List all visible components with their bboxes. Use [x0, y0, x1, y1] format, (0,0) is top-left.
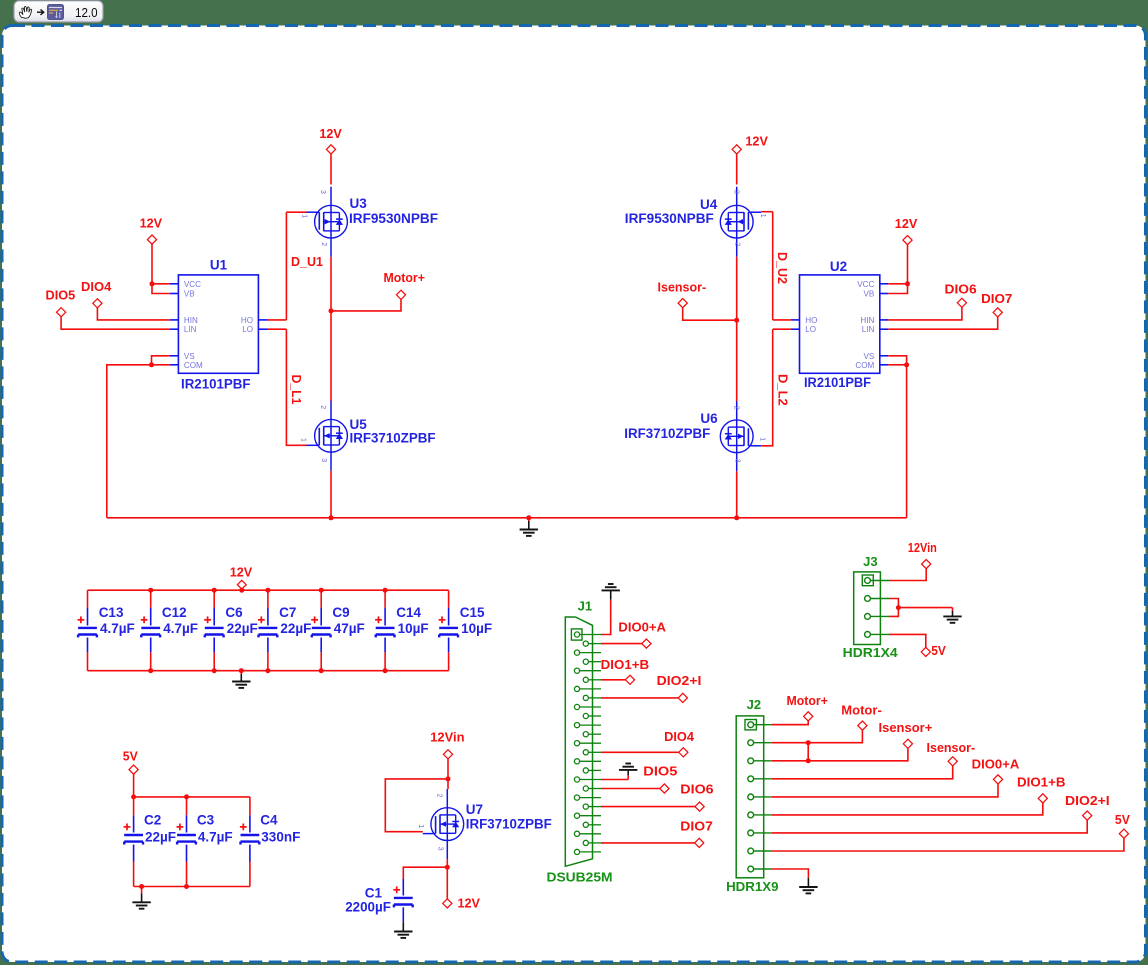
svg-text:COM: COM	[184, 361, 203, 370]
wire J3 pin3	[889, 608, 898, 617]
svg-text:1: 1	[759, 437, 766, 441]
svg-text:4.7µF: 4.7µF	[198, 830, 233, 845]
svg-text:C9: C9	[332, 605, 349, 620]
svg-text:12V: 12V	[458, 896, 481, 911]
svg-text:2200µF: 2200µF	[345, 900, 391, 915]
svg-text:HDR1X4: HDR1X4	[843, 645, 899, 660]
ground symbol J3	[943, 615, 961, 617]
net D_L1 vertical to U5 gate	[286, 329, 306, 445]
ground symbol cap bank	[232, 681, 250, 683]
svg-text:VB: VB	[184, 290, 195, 299]
wire 12Vin down	[447, 759, 449, 779]
junction gnd cap bank	[239, 668, 244, 673]
svg-text:22µF: 22µF	[145, 830, 176, 845]
5V block bottom rail	[134, 886, 250, 888]
wire J3 pin2	[889, 599, 898, 608]
wire U6 source to rail	[736, 471, 738, 518]
svg-text:U2: U2	[830, 259, 847, 274]
svg-text:12Vin: 12Vin	[430, 730, 464, 745]
J1 pin1 square	[571, 629, 582, 640]
junction VS-COM	[149, 362, 154, 367]
wire DIO6 to HIN	[888, 308, 962, 320]
svg-text:DIO6: DIO6	[945, 282, 977, 297]
wire C1 to ground	[402, 907, 404, 923]
J3 pins	[865, 578, 871, 584]
svg-text:DIO4: DIO4	[81, 279, 112, 294]
svg-text:10µF: 10µF	[461, 621, 492, 636]
connector J3 HDR1X4 box	[854, 572, 881, 645]
wire VCC	[152, 283, 170, 285]
junction drain-left	[329, 308, 334, 313]
svg-text:D_U1: D_U1	[291, 254, 323, 269]
junction rail ground	[526, 515, 531, 520]
wire U7 source down	[446, 859, 448, 867]
J3 pin1 square	[862, 575, 873, 586]
svg-text:2: 2	[319, 405, 326, 409]
svg-text:2: 2	[320, 242, 327, 246]
junction VCC right	[905, 281, 910, 286]
svg-text:J2: J2	[747, 697, 761, 712]
wire U4 drain to U6 drain	[736, 257, 738, 402]
svg-text:C3: C3	[197, 813, 215, 828]
capacitor C4 330nF	[249, 797, 251, 815]
transistor U4 IRF9530NPBF	[720, 205, 753, 238]
svg-text:Motor-: Motor-	[841, 703, 882, 718]
driver U2 IR2101PBF box	[800, 275, 880, 373]
ground rail wire	[107, 517, 907, 519]
svg-text:3: 3	[436, 847, 443, 851]
wire J2 pins 2-3 joined	[807, 743, 809, 761]
hand pan icon	[19, 6, 31, 18]
svg-text:12V: 12V	[745, 134, 768, 149]
capacitor C3 4.7µF	[186, 797, 188, 815]
J2 pins	[748, 722, 754, 728]
svg-text:1: 1	[300, 438, 307, 442]
wire to C1	[403, 867, 447, 879]
svg-text:22µF: 22µF	[227, 621, 258, 636]
svg-text:22µF: 22µF	[280, 621, 311, 636]
wire VS loop	[152, 356, 170, 365]
svg-text:47µF: 47µF	[334, 621, 365, 636]
capacitor C9 47µF	[320, 590, 322, 608]
U1 pin stubs right	[258, 319, 268, 321]
connector J1 DSUB25M outline	[565, 617, 592, 866]
wire U7 to 12V flag	[446, 867, 448, 899]
svg-text:DIO1+B: DIO1+B	[1017, 775, 1066, 790]
capacitor C7 22µF	[267, 590, 269, 608]
svg-text:LIN: LIN	[184, 325, 197, 334]
U2 pin stubs right	[880, 283, 889, 285]
svg-text:3: 3	[319, 190, 326, 194]
junction U5 source rail	[329, 515, 334, 520]
ground symbol 5V block	[132, 901, 150, 903]
transistor U7 IRF3710ZPBF	[431, 808, 464, 841]
wire U2 HO to D_U2	[773, 319, 791, 321]
svg-text:3: 3	[320, 458, 327, 462]
svg-text:U3: U3	[350, 196, 368, 211]
svg-text:DIO5: DIO5	[46, 287, 76, 302]
svg-text:4.7µF: 4.7µF	[100, 621, 135, 636]
svg-text:D_L2: D_L2	[776, 374, 791, 406]
svg-text:C7: C7	[279, 605, 296, 620]
wire 12V to U1 VCC	[151, 244, 153, 283]
wire 12V to U3 drain	[330, 154, 332, 184]
svg-text:2: 2	[435, 794, 442, 798]
J1 pins	[574, 632, 579, 637]
wire 12V to U2 VCC	[907, 245, 909, 284]
svg-text:VCC: VCC	[184, 280, 201, 289]
wire DIO4 to HIN	[97, 308, 169, 320]
transistor U5 IRF3710ZPBF	[315, 419, 348, 452]
svg-text:LO: LO	[242, 325, 253, 334]
svg-text:C1: C1	[365, 886, 383, 901]
svg-text:1: 1	[759, 214, 766, 218]
svg-text:12V: 12V	[895, 216, 918, 231]
capacitor C14 10µF	[384, 590, 386, 608]
svg-text:VCC: VCC	[857, 280, 874, 289]
junction drain-right	[734, 318, 739, 323]
junction U6 source rail	[734, 515, 739, 520]
svg-text:2: 2	[734, 242, 741, 246]
svg-text:2: 2	[733, 406, 740, 410]
svg-text:Isensor+: Isensor+	[879, 720, 933, 735]
power flag 12V above U4	[732, 145, 741, 154]
ground symbol rail	[520, 529, 538, 531]
net D_L2 vertical to U6 gate	[761, 329, 773, 446]
wire U3 drain to U5 drain	[330, 257, 332, 401]
svg-text:J1: J1	[578, 599, 592, 614]
svg-text:VS: VS	[184, 352, 195, 361]
svg-text:1: 1	[417, 824, 424, 828]
ground symbol C1	[394, 931, 412, 933]
wire DIO7 to LIN	[888, 317, 997, 329]
svg-text:C15: C15	[460, 605, 485, 620]
wire VCC right	[888, 283, 907, 285]
svg-text:HDR1X9: HDR1X9	[726, 879, 778, 894]
arrow glyph	[37, 10, 44, 15]
svg-text:IRF3710ZPBF: IRF3710ZPBF	[624, 426, 710, 441]
wire Isensor- to junction	[683, 308, 737, 320]
control panel icon	[48, 5, 64, 20]
svg-text:COM: COM	[855, 361, 874, 370]
svg-text:U1: U1	[210, 258, 228, 273]
net D_L2 wire from U2 LO	[773, 328, 791, 330]
capacitor C6 22µF	[213, 590, 215, 608]
svg-text:DIO2+I: DIO2+I	[1065, 793, 1110, 808]
capacitor C1 2200uF	[402, 879, 404, 896]
svg-text:330nF: 330nF	[261, 830, 300, 845]
wire J1 pin20 net	[601, 806, 695, 808]
junction 12Vin	[446, 776, 451, 781]
svg-text:C6: C6	[225, 605, 243, 620]
svg-text:C14: C14	[396, 605, 421, 620]
flag Motor+	[396, 290, 405, 299]
capacitor C2 22µF	[133, 797, 135, 815]
wire J1 pin1 to ground	[601, 600, 611, 635]
svg-text:IRF9530NPBF: IRF9530NPBF	[625, 211, 714, 226]
svg-text:IR2101PBF: IR2101PBF	[181, 377, 251, 392]
svg-text:5V: 5V	[931, 643, 946, 658]
svg-text:5V: 5V	[123, 749, 138, 764]
svg-text:10µF: 10µF	[398, 621, 429, 636]
svg-text:U7: U7	[466, 802, 483, 817]
wire to Motor+ flag	[331, 300, 401, 311]
ground symbol J1 top	[602, 589, 620, 591]
wire U1 HO to D_U1	[268, 319, 286, 321]
svg-text:DIO2+I: DIO2+I	[657, 673, 702, 688]
wire COM to rail	[107, 365, 170, 518]
svg-text:12V: 12V	[319, 126, 342, 141]
ground symbol J2	[799, 886, 817, 888]
wire gate loop U7	[385, 779, 448, 832]
transistor U6 IRF3710ZPBF	[720, 420, 753, 453]
net D_U2 vertical	[772, 212, 774, 320]
svg-text:D_U2: D_U2	[775, 252, 790, 284]
svg-text:IRF3710ZPBF: IRF3710ZPBF	[466, 817, 552, 832]
5V block top rail	[134, 796, 250, 798]
op-amp driver U1 IR2101PBF box	[178, 275, 258, 373]
svg-text:IRF3710ZPBF: IRF3710ZPBF	[350, 431, 436, 446]
net D_U1 vertical	[285, 212, 287, 320]
wire COM right to rail	[888, 364, 906, 366]
U1 pin stubs left	[170, 283, 179, 285]
svg-text:DIO1+B: DIO1+B	[601, 657, 650, 672]
wire to ground J3	[898, 607, 952, 609]
svg-text:HIN: HIN	[184, 316, 198, 325]
svg-text:C13: C13	[99, 605, 124, 620]
svg-text:U6: U6	[700, 411, 718, 426]
capacitor C13 4.7µF	[87, 590, 89, 608]
svg-text:12Vin: 12Vin	[908, 540, 937, 555]
svg-text:Motor+: Motor+	[787, 693, 829, 708]
svg-text:DIO7: DIO7	[981, 291, 1012, 306]
svg-text:VB: VB	[863, 290, 874, 299]
junction U7 source	[445, 865, 450, 870]
transistor U3 IRF9530NPBF	[315, 205, 348, 238]
svg-text:5V: 5V	[1115, 812, 1130, 827]
svg-text:J3: J3	[863, 554, 877, 569]
wire 12Vin to U7 drain	[447, 779, 449, 789]
wire VB	[152, 284, 170, 294]
J2 pin1 square	[745, 720, 756, 730]
svg-text:Isensor-: Isensor-	[658, 280, 707, 295]
svg-text:DIO5: DIO5	[643, 764, 677, 779]
wire 12V to U4	[736, 154, 738, 184]
svg-text:12V: 12V	[140, 216, 163, 231]
svg-text:IR2101PBF: IR2101PBF	[804, 375, 871, 390]
svg-text:3: 3	[733, 190, 740, 194]
wire VB right	[888, 284, 907, 294]
cap bank top rail	[88, 589, 449, 591]
net D_U2 gate wire U4	[761, 211, 773, 213]
ground symbol J1 DIO5	[619, 769, 637, 771]
svg-text:HIN: HIN	[860, 316, 874, 325]
capacitor C12 4.7µF	[150, 590, 152, 608]
net D_L1 wire from U1 LO	[268, 328, 286, 330]
svg-text:HO: HO	[805, 316, 817, 325]
svg-text:IRF9530NPBF: IRF9530NPBF	[349, 211, 438, 226]
power flag 12V below U7	[443, 899, 452, 908]
svg-text:Motor+: Motor+	[384, 270, 426, 285]
capacitor C15 10µF	[448, 590, 450, 608]
wire DIO5 to LIN	[61, 317, 170, 329]
cap bank bottom rail	[88, 670, 449, 672]
wire U5 source to gnd rail	[330, 471, 332, 518]
junction J3 pins 2-3	[896, 605, 901, 610]
svg-text:C2: C2	[144, 813, 161, 828]
svg-text:DIO0+A: DIO0+A	[972, 757, 1020, 772]
svg-text:C4: C4	[260, 813, 278, 828]
wire J2 pin9 to ground	[772, 869, 809, 878]
svg-text:DIO7: DIO7	[680, 819, 713, 834]
svg-text:C12: C12	[162, 605, 187, 620]
svg-text:D_L1: D_L1	[289, 375, 304, 405]
svg-text:U4: U4	[700, 197, 718, 212]
svg-text:DIO0+A: DIO0+A	[618, 620, 666, 635]
svg-text:3: 3	[734, 459, 741, 463]
junction VCC	[150, 281, 155, 286]
svg-text:DSUB25M: DSUB25M	[547, 870, 613, 885]
svg-text:LO: LO	[805, 325, 816, 334]
wire VS right loop	[888, 356, 906, 365]
svg-text:DIO6: DIO6	[680, 782, 713, 797]
svg-text:1: 1	[301, 214, 308, 218]
junction VS-COM right	[904, 362, 909, 367]
connector J2 HDR1X9 box	[736, 716, 764, 878]
svg-text:DIO4: DIO4	[664, 729, 695, 744]
svg-text:12.0: 12.0	[75, 6, 98, 20]
svg-text:LIN: LIN	[862, 325, 875, 334]
svg-text:VS: VS	[863, 352, 874, 361]
svg-text:HO: HO	[241, 316, 253, 325]
wire 5V to rail	[133, 774, 135, 797]
svg-text:Isensor-: Isensor-	[927, 740, 976, 755]
U2 pin stubs left	[791, 319, 800, 321]
net D_U1 gate wire U3	[286, 211, 306, 213]
svg-text:12V: 12V	[230, 565, 253, 580]
svg-text:4.7µF: 4.7µF	[163, 621, 198, 636]
